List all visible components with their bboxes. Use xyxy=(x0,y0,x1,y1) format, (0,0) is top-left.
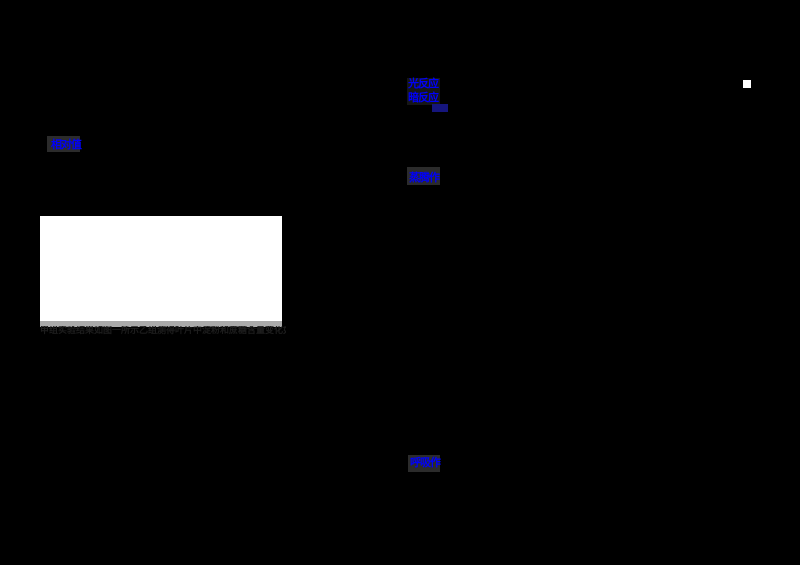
small dark blue box xyxy=(432,104,448,112)
answer blue line 2 xyxy=(408,93,438,104)
answer blue line 1 xyxy=(407,78,440,105)
answer box B xyxy=(407,167,440,185)
faint dark text row xyxy=(40,326,286,335)
answer box C xyxy=(408,455,440,472)
answer box A: gray highlight with blue text xyxy=(47,136,80,152)
figure image xyxy=(40,216,282,327)
gray band (blurred caption) xyxy=(40,321,282,327)
white square top right xyxy=(743,80,751,88)
